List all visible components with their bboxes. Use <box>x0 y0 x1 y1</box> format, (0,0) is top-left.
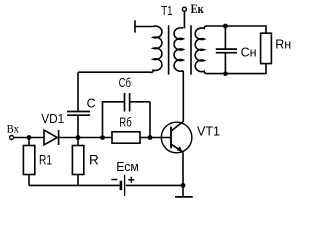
capacitor Сн <box>224 26 226 49</box>
node base/R1 junction <box>27 135 32 140</box>
transformer winding C <box>195 26 207 74</box>
transformer winding A <box>151 26 162 72</box>
wire winding A bottom to C <box>78 71 151 73</box>
svg-text:Rб: Rб <box>119 115 131 129</box>
bottom bus wire right <box>126 184 183 186</box>
svg-text:Вх: Вх <box>7 122 19 136</box>
ground <box>182 185 184 197</box>
wire top left tick <box>135 20 153 32</box>
svg-text:Т1: Т1 <box>161 4 172 18</box>
resistor R1 <box>28 138 30 146</box>
node emitter/bus junction <box>181 183 186 188</box>
label plus <box>128 177 134 183</box>
battery Есм <box>120 181 123 191</box>
resistor Rб <box>112 132 140 143</box>
node C/R junction <box>76 135 81 140</box>
node base right junction <box>148 135 153 140</box>
svg-text:Сн: Сн <box>241 45 257 59</box>
svg-text:С: С <box>87 97 96 111</box>
resistor Rн <box>261 33 272 63</box>
input terminal Вх <box>10 136 14 140</box>
diode VD1 <box>44 130 57 145</box>
transformer winding B <box>174 28 183 71</box>
capacitor Сб branch <box>103 102 125 138</box>
svg-text:Ек: Ек <box>191 2 205 16</box>
terminal Ек <box>182 7 186 11</box>
wire emitter <box>182 152 184 185</box>
wire collector <box>182 71 184 122</box>
node tank bottom <box>223 71 228 76</box>
capacitor C <box>77 115 79 137</box>
transistor VT1 <box>161 122 192 153</box>
node tank top <box>223 24 228 29</box>
svg-text:VD1: VD1 <box>41 111 64 126</box>
svg-text:Сб: Сб <box>119 76 131 90</box>
wire input to diode <box>14 137 44 139</box>
bottom bus wire left <box>29 184 120 186</box>
resistor R <box>77 138 79 146</box>
svg-text:Rн: Rн <box>275 37 291 52</box>
wire to transistor base <box>150 137 171 139</box>
svg-text:VT1: VT1 <box>197 123 220 138</box>
svg-text:R: R <box>89 152 99 167</box>
wire diode to Rб <box>59 137 112 139</box>
svg-text:Есм: Есм <box>116 160 139 174</box>
wire tank top <box>206 26 266 33</box>
node Сб/Rб left junction <box>100 135 105 140</box>
transformer core <box>169 25 191 74</box>
svg-text:R1: R1 <box>39 153 52 168</box>
label minus <box>111 179 117 181</box>
wire tank bottom <box>206 64 266 74</box>
